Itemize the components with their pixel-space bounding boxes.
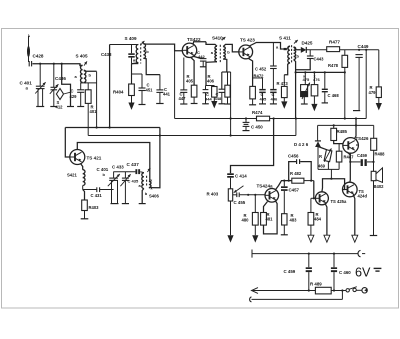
svg-text:C438: C438 (101, 52, 112, 57)
svg-text:D 4 2 6: D 4 2 6 (294, 142, 309, 147)
wire S409 secondary bottom (143, 58, 160, 74)
transformer S410 (211, 36, 231, 64)
svg-text:451: 451 (146, 88, 154, 93)
wire S406 feedback (149, 128, 160, 188)
svg-text:D425: D425 (302, 41, 313, 46)
capacitor C433 (112, 165, 131, 204)
svg-text:C 435: C 435 (128, 179, 139, 184)
svg-text:R 473: R 473 (277, 81, 289, 86)
resistor R487 (336, 144, 354, 170)
capacitor C456 loop (288, 154, 311, 181)
resistor R479 (369, 50, 382, 111)
wire antenna coil node (81, 82, 97, 84)
resistor R480 (242, 195, 259, 243)
potentiometer R403 volume (207, 186, 244, 201)
svg-text:R404: R404 (113, 90, 124, 95)
resistor R405 (186, 57, 198, 103)
wire battery rail (252, 250, 358, 258)
svg-text:475: 475 (303, 77, 310, 82)
svg-text:405: 405 (186, 79, 194, 84)
svg-text:C 459: C 459 (284, 269, 296, 274)
label C435 (128, 179, 139, 184)
svg-text:442: 442 (198, 54, 205, 59)
diode D426 (294, 125, 321, 169)
wire TS421 collector (77, 143, 150, 182)
wire volume bottom (227, 201, 233, 243)
wire S410 secondary bottom (222, 59, 231, 72)
wire S406 primary bottom (139, 189, 146, 204)
svg-text:446: 446 (271, 97, 278, 102)
capacitor C441 (156, 75, 170, 104)
svg-text:412: 412 (56, 105, 64, 110)
svg-text:R478: R478 (328, 63, 339, 68)
svg-text:TS426: TS426 (356, 136, 369, 141)
wire bias bottom (318, 169, 339, 178)
svg-text:444: 444 (205, 97, 212, 102)
resistor R481 (261, 201, 278, 234)
wire AVC node (295, 71, 346, 73)
svg-text:C443: C443 (314, 57, 325, 62)
node input junctions (39, 63, 63, 65)
svg-text:406: 406 (207, 79, 215, 84)
wire S411 primary bottom (284, 63, 290, 75)
capacitor C460 (331, 254, 351, 291)
transistor TS424a (257, 184, 279, 203)
transistor TS426 (343, 136, 369, 153)
wire IF box left (65, 45, 160, 129)
svg-text:TS 423: TS 423 (240, 38, 255, 43)
capacitor C443 (296, 50, 325, 70)
svg-text:R403: R403 (89, 205, 100, 210)
svg-text:448: 448 (215, 96, 222, 101)
capacitor C451 (139, 74, 154, 105)
svg-text:R: R (319, 154, 322, 159)
svg-text:TS 425a: TS 425a (331, 199, 348, 204)
resistor R406 (207, 74, 217, 108)
jack power plug (356, 288, 367, 293)
resistor R484 (308, 198, 322, 242)
capacitor C437 (127, 162, 144, 174)
wire S409 secondary top (143, 44, 182, 51)
resistor R473 (277, 75, 289, 109)
wire S405 to mixer (96, 72, 98, 128)
svg-text:S410: S410 (212, 36, 223, 41)
svg-text:C 468: C 468 (328, 93, 340, 98)
resistor R474 (252, 110, 270, 121)
wire TS424a collector (275, 180, 314, 191)
switch S412 (56, 64, 75, 110)
svg-text:480: 480 (242, 218, 250, 223)
capacitor C459 coupling (350, 153, 374, 166)
resistor R489 (310, 281, 331, 294)
inductor S421 (67, 164, 85, 190)
svg-text:C456: C456 (288, 154, 299, 159)
svg-text:S 411: S 411 (279, 36, 291, 41)
transformer S405 (75, 54, 97, 83)
transistor TS423 (239, 38, 255, 59)
svg-text:C449: C449 (358, 44, 369, 49)
svg-text:TS 421: TS 421 (87, 156, 102, 161)
svg-text:C459: C459 (357, 153, 368, 158)
capacitor C442 (193, 50, 207, 67)
capacitor C429 (70, 83, 85, 107)
capacitor C428 (29, 54, 44, 67)
capacitor C401b (97, 167, 120, 204)
svg-text:447: 447 (179, 96, 187, 101)
svg-text:S421: S421 (67, 173, 77, 178)
wire TS425a collector (322, 178, 345, 192)
wire jack line (250, 291, 343, 302)
wire volume feed (231, 119, 274, 174)
wire speaker ground (370, 181, 377, 236)
transistor TS424d (343, 182, 368, 198)
wire TS422 collector (193, 42, 206, 45)
svg-text:C 433: C 433 (112, 165, 124, 170)
wire TS424d emitter (352, 195, 358, 243)
svg-text:R477: R477 (329, 40, 340, 45)
svg-text:6V: 6V (355, 265, 371, 279)
resistor R401 (85, 83, 97, 136)
wire AGC riser (174, 51, 176, 119)
switch on-off (346, 287, 357, 292)
jack earphone (358, 250, 365, 256)
svg-text:476: 476 (313, 77, 320, 82)
wire input (32, 64, 80, 66)
transistor TS422 (182, 37, 201, 58)
svg-text:481: 481 (266, 217, 274, 222)
svg-text:C457: C457 (289, 188, 300, 193)
svg-text:R 403: R 403 (207, 192, 219, 197)
svg-text:TS424a: TS424a (257, 184, 274, 189)
antenna (27, 35, 30, 63)
capacitor C459 supply (284, 254, 312, 291)
svg-text:S 405: S 405 (76, 54, 88, 59)
svg-text:445: 445 (260, 97, 267, 102)
svg-text:C 455: C 455 (234, 200, 246, 205)
svg-text:C436: C436 (55, 76, 66, 81)
svg-text:401: 401 (90, 109, 98, 114)
svg-text:S 409: S 409 (125, 36, 137, 41)
resistor R477 (327, 40, 379, 52)
svg-text:S406: S406 (149, 194, 159, 199)
battery 6V (355, 265, 381, 279)
wire supply rail (175, 117, 367, 119)
capacitor C452 (270, 43, 277, 89)
wire TS423 collector (249, 43, 281, 50)
resistor R404 (113, 84, 135, 110)
wire TS425a emitter (324, 203, 330, 242)
capacitor C444 (202, 86, 212, 104)
wire TS425a base (313, 181, 316, 200)
svg-text:479: 479 (369, 90, 377, 95)
svg-text:C 431: C 431 (91, 193, 103, 198)
capacitor C438 (101, 45, 138, 64)
resistor R403 oscillator (81, 190, 99, 219)
svg-text:x: x (150, 179, 152, 183)
wire bias rail (318, 124, 374, 126)
resistor R485 (331, 125, 348, 143)
wire TS424d collector (349, 153, 351, 182)
svg-text:C 450: C 450 (251, 125, 263, 130)
svg-text:469: 469 (318, 163, 326, 168)
capacitor C431 (83, 187, 114, 198)
svg-text:R474: R474 (252, 110, 263, 115)
capacitor C457 (281, 181, 300, 214)
svg-text:C 414: C 414 (235, 174, 247, 179)
svg-text:R 489: R 489 (310, 281, 322, 286)
resistor R488 (371, 125, 385, 161)
wire S410 secondary top (223, 44, 239, 52)
wire S411 secondary bottom (294, 60, 296, 119)
svg-text:R 482: R 482 (290, 171, 302, 176)
resistor R472 (248, 58, 267, 105)
capacitor C445 (253, 78, 267, 104)
resistor R483 (281, 213, 297, 235)
wire oscillator feedback (88, 119, 296, 137)
svg-text:R485: R485 (337, 129, 348, 134)
svg-text:424d: 424d (358, 194, 368, 199)
svg-text:R488: R488 (375, 152, 386, 157)
capacitor C414 (227, 173, 247, 189)
wire TS421 base (65, 128, 70, 158)
diode D425 (294, 41, 313, 53)
svg-text:C428: C428 (33, 54, 44, 59)
transformer S406 (139, 168, 160, 199)
svg-text:429: 429 (70, 94, 78, 99)
resistor R475 (301, 72, 310, 104)
transformer S409 (110, 36, 150, 64)
svg-text:B402: B402 (374, 184, 385, 189)
wire S410 primary feed (206, 42, 217, 86)
wire detector rail (306, 49, 326, 51)
resistor R407 (224, 72, 231, 104)
resistor R482 (290, 171, 304, 183)
svg-text:483: 483 (290, 218, 298, 223)
wire TS426 emitter (347, 152, 350, 162)
capacitor C436 (50, 64, 67, 107)
svg-text:C: C (71, 89, 74, 94)
resistor R478 (328, 50, 348, 119)
svg-text:C 437: C 437 (127, 162, 140, 167)
wire S409 primary bottom (132, 63, 143, 84)
wire supply riser (230, 72, 232, 135)
transistor TS421 (70, 150, 102, 165)
wire rail to supply (365, 50, 367, 119)
svg-text:484: 484 (314, 217, 322, 222)
capacitor C401a (20, 64, 46, 107)
capacitor C446 (270, 89, 278, 104)
svg-text:R487: R487 (344, 155, 355, 160)
capacitor C449 (353, 44, 369, 111)
transistor TS425a (315, 192, 347, 205)
capacitor C455 (233, 193, 265, 206)
loudspeaker B402 (371, 162, 384, 189)
svg-text:C 460: C 460 (339, 270, 351, 275)
capacitor C447 (179, 58, 188, 105)
svg-text:x: x (151, 186, 153, 190)
wire TS426 collector (354, 119, 356, 140)
resistor R469 (318, 147, 332, 170)
resistor R476 (311, 72, 320, 111)
svg-text:441: 441 (163, 92, 171, 97)
capacitor C448 (215, 72, 226, 104)
wire switch rail (252, 288, 347, 294)
capacitor C450 (243, 119, 264, 131)
capacitor C468 (322, 72, 340, 103)
transformer S411 (276, 36, 300, 64)
wire oscillator tank top (114, 171, 136, 173)
svg-text:C 452: C 452 (255, 67, 267, 72)
